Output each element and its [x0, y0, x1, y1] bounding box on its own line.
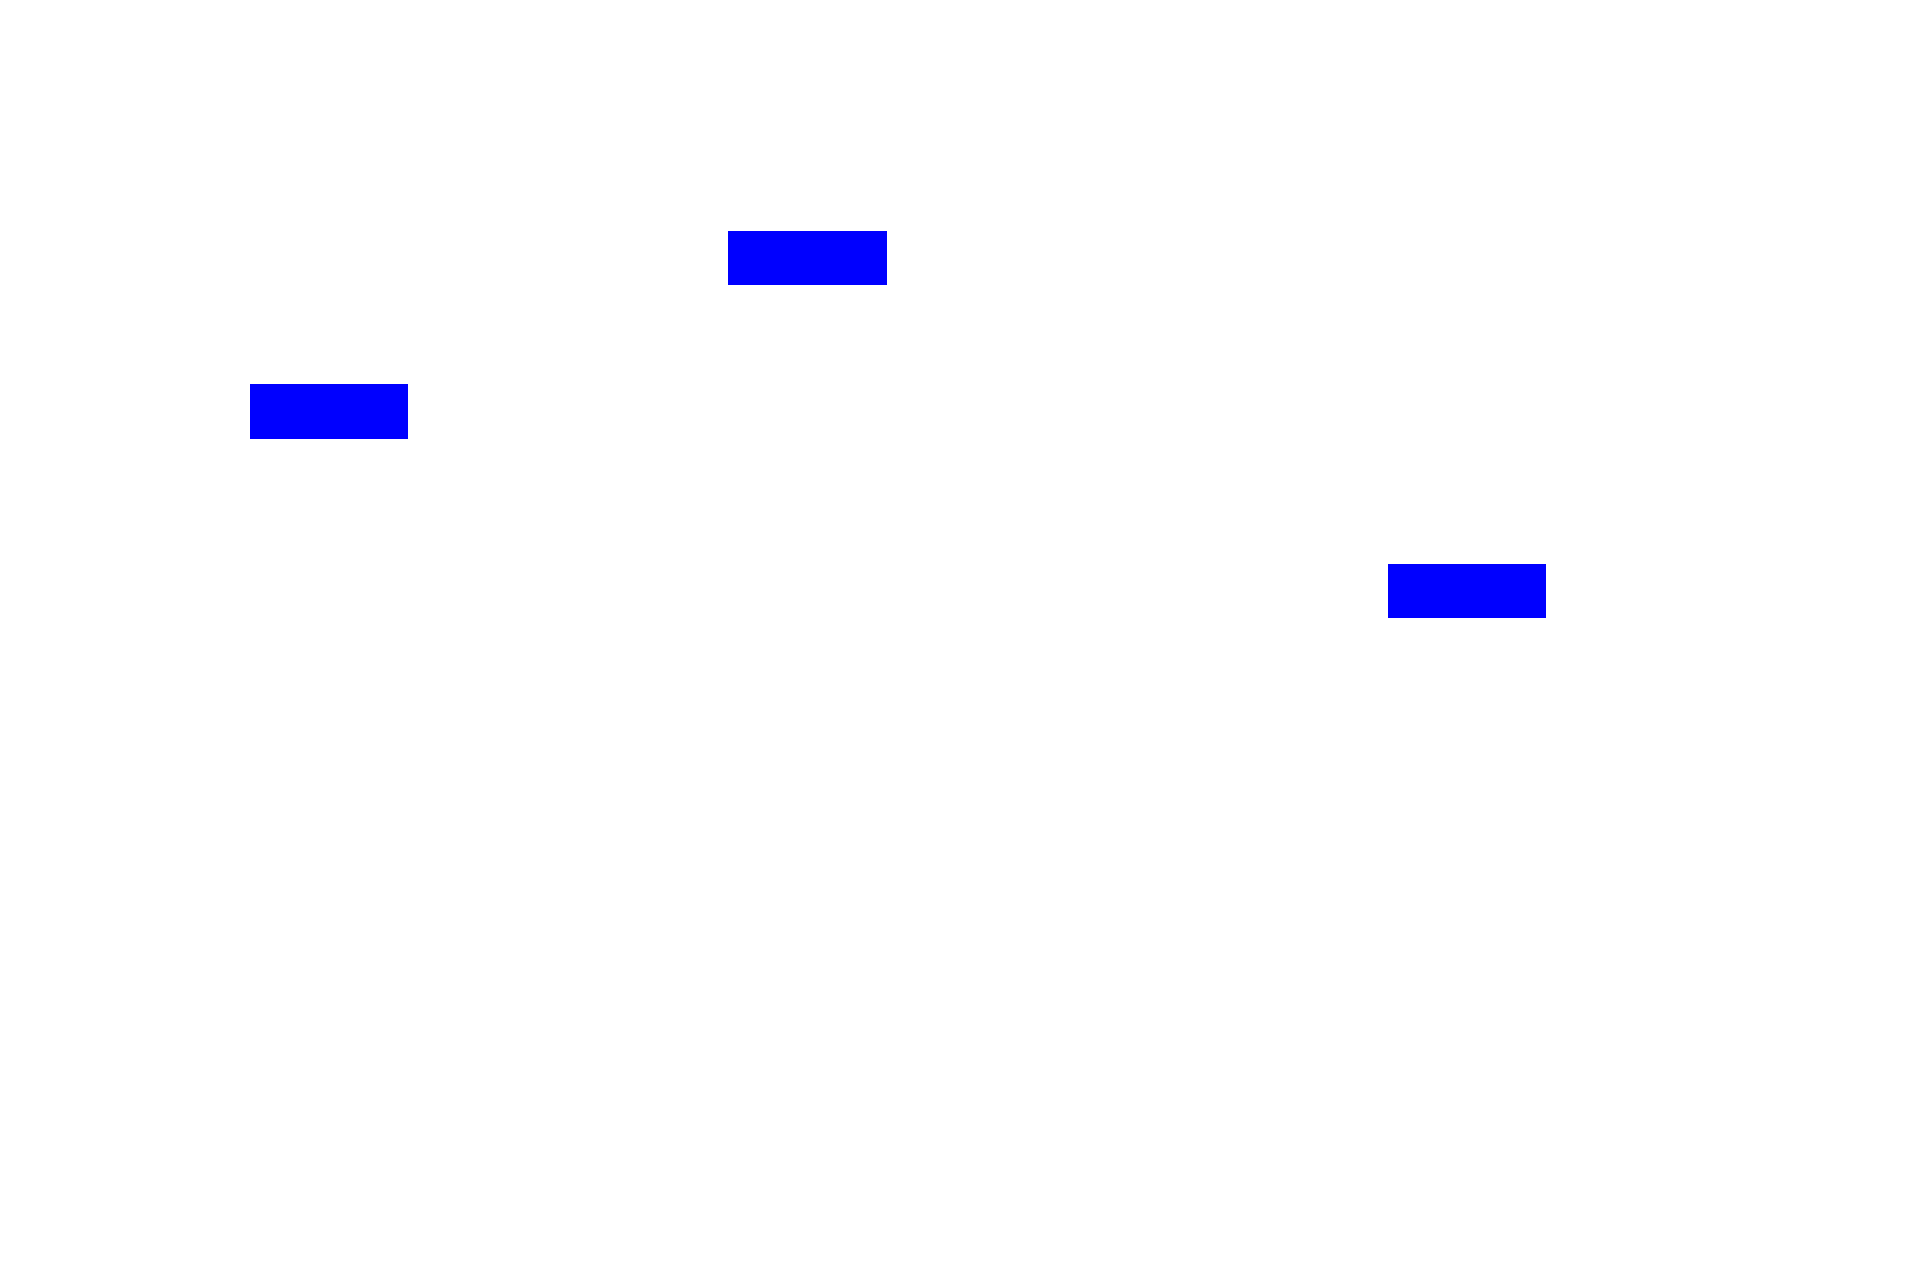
- blue rectangle top-center: [728, 231, 887, 285]
- blue rectangle mid-right: [1388, 564, 1546, 618]
- blue rectangle mid-left: [250, 384, 408, 439]
